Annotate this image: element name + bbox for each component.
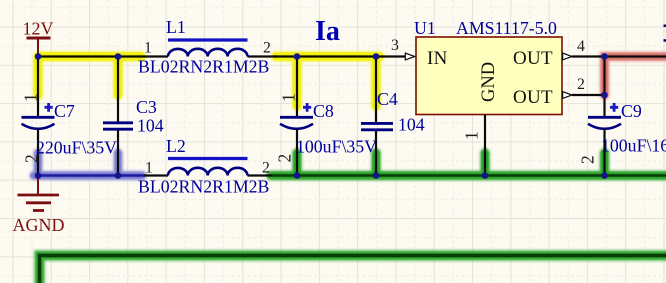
wire AGND-left (blue section core) bbox=[38, 174, 144, 176]
svg-text:OUT: OUT bbox=[513, 87, 553, 108]
C9 polarity + bbox=[610, 103, 618, 112]
svg-text:C4: C4 bbox=[377, 89, 398, 109]
junction U1 GND pin bbox=[482, 172, 489, 179]
svg-text:GND: GND bbox=[479, 62, 499, 102]
inductor L2 bbox=[138, 136, 272, 197]
C8 polarity + bbox=[303, 103, 311, 112]
svg-text:100uF\35V: 100uF\35V bbox=[296, 137, 377, 157]
svg-text:C7: C7 bbox=[54, 101, 75, 121]
L1 pin leads bbox=[144, 55, 277, 57]
svg-text:2: 2 bbox=[22, 154, 42, 163]
capacitor C7 bbox=[21, 93, 118, 175]
capacitor C4 bbox=[361, 89, 425, 176]
clipped label fragment top-right (L3) bbox=[664, 25, 666, 28]
svg-text:2: 2 bbox=[263, 40, 271, 57]
inductor L1 bbox=[138, 17, 277, 77]
wire C4 bottom to GND rail bbox=[375, 131, 377, 176]
svg-text:BL02RN2R1M2B: BL02RN2R1M2B bbox=[138, 177, 269, 197]
svg-text:1: 1 bbox=[145, 160, 153, 177]
wire 12V rail left bbox=[38, 55, 144, 57]
power portal 12V bbox=[27, 38, 51, 57]
U1 pin 3 IN bbox=[381, 37, 415, 60]
ground AGND bbox=[18, 176, 60, 211]
wire red net horizontal bbox=[605, 55, 666, 57]
highlight halo: red net +5V bbox=[605, 57, 666, 96]
svg-text:1: 1 bbox=[279, 93, 299, 102]
capacitor C8 bbox=[275, 93, 378, 175]
svg-text:OUT: OUT bbox=[513, 48, 553, 69]
svg-text:L2: L2 bbox=[166, 136, 186, 156]
wire C7 top drop bbox=[37, 57, 39, 117]
svg-text:IN: IN bbox=[427, 48, 448, 69]
junction C8 top bbox=[294, 53, 301, 60]
junction C3 bottom bbox=[115, 172, 122, 179]
svg-text:Ia: Ia bbox=[315, 16, 340, 47]
svg-text:104: 104 bbox=[398, 115, 425, 135]
junction C4 bottom bbox=[373, 172, 380, 179]
junction C9 bottom bbox=[601, 172, 608, 179]
wire 12V rail right (to U1 pin3) bbox=[274, 55, 381, 57]
svg-text:BL02RN2R1M2B: BL02RN2R1M2B bbox=[138, 57, 269, 77]
junction OUT pin4 bbox=[601, 53, 608, 60]
wire C3 bottom to AGND rail bbox=[117, 131, 119, 176]
capacitor C9 bbox=[578, 95, 666, 176]
wire C7 bottom to AGND rail bbox=[37, 129, 39, 176]
highlight halo: yellow net 12V-rail bbox=[38, 57, 380, 107]
svg-text:2: 2 bbox=[578, 155, 598, 164]
highlight halo: blue net AGND-left bbox=[34, 153, 142, 176]
svg-text:2: 2 bbox=[577, 76, 585, 93]
clipped inductor bar fragment right edge bbox=[664, 39, 666, 42]
svg-text:1: 1 bbox=[462, 131, 482, 140]
svg-text:220uF\35V: 220uF\35V bbox=[36, 138, 117, 158]
junction C3 top bbox=[115, 53, 122, 60]
L2 pin leads bbox=[144, 174, 272, 176]
junction AGND/C7 bottom bbox=[35, 172, 42, 179]
U1 pin 4 OUT bbox=[563, 38, 605, 60]
svg-text:2: 2 bbox=[275, 154, 295, 163]
junction C4 top bbox=[373, 53, 380, 60]
svg-text:1: 1 bbox=[21, 93, 41, 102]
svg-text:U1: U1 bbox=[414, 18, 436, 38]
svg-text:100uF\16V: 100uF\16V bbox=[601, 136, 666, 156]
wire C9 top lead bbox=[603, 95, 605, 116]
svg-text:C9: C9 bbox=[621, 101, 642, 121]
highlight halo: green net GND bbox=[40, 153, 666, 283]
svg-text:4: 4 bbox=[577, 38, 585, 55]
U1 pin 2 OUT bbox=[563, 76, 605, 98]
svg-text:L1: L1 bbox=[166, 17, 186, 37]
svg-text:3: 3 bbox=[391, 37, 399, 54]
capacitor C3 bbox=[103, 97, 164, 176]
wire C8 bottom to GND rail bbox=[296, 129, 298, 176]
junction 12V/C7 bbox=[35, 53, 42, 60]
svg-text:1: 1 bbox=[144, 40, 152, 57]
svg-text:12V: 12V bbox=[23, 19, 54, 39]
regulator U1 AMS1117-5.0 body bbox=[414, 18, 562, 115]
junction C8 bottom bbox=[294, 172, 301, 179]
wire GND bottom rail core bbox=[40, 256, 666, 283]
C7 polarity + bbox=[45, 103, 53, 112]
svg-text:AGND: AGND bbox=[13, 215, 65, 235]
wire C9 bottom to GND rail bbox=[603, 129, 605, 176]
wire GND (green section core) bbox=[272, 174, 666, 177]
svg-text:AMS1117-5.0: AMS1117-5.0 bbox=[456, 18, 557, 38]
junction OUT pin2 bbox=[601, 92, 608, 99]
wire red net vertical bbox=[603, 57, 605, 96]
svg-text:C3: C3 bbox=[136, 97, 157, 117]
svg-text:104: 104 bbox=[137, 116, 164, 136]
wire C8 top drop bbox=[296, 57, 298, 117]
svg-text:2: 2 bbox=[262, 160, 270, 177]
svg-text:C8: C8 bbox=[313, 101, 334, 121]
wire C3 top drop bbox=[117, 57, 119, 122]
U1 pin 1 GND bbox=[462, 115, 486, 176]
wire C4 top drop bbox=[375, 57, 377, 123]
